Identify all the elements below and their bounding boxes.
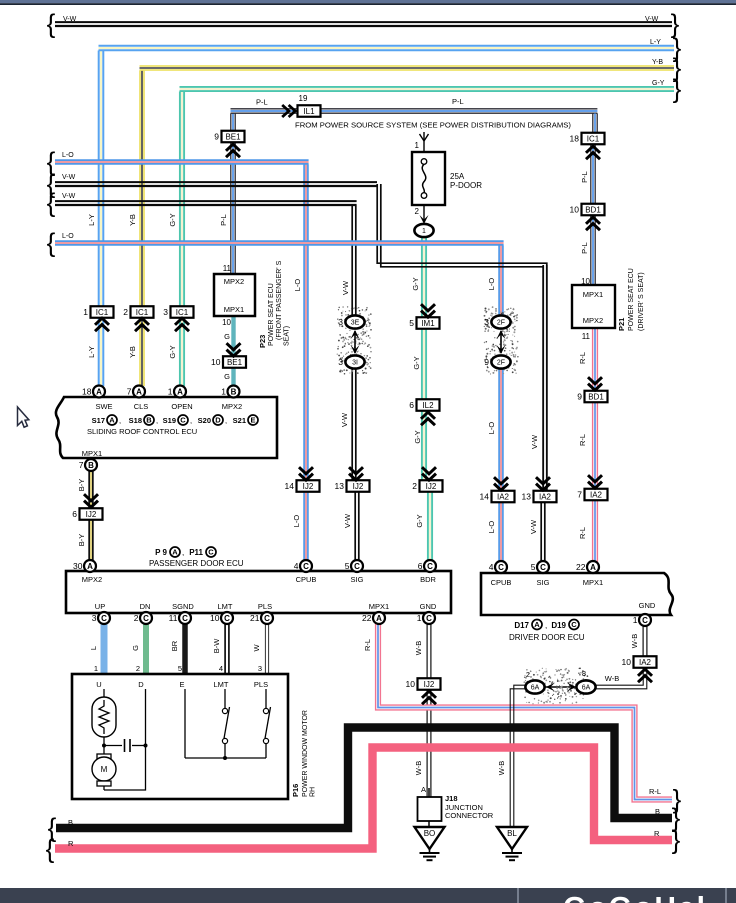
svg-text:W-B: W-B (414, 641, 423, 655)
svg-text:B: B (68, 818, 73, 827)
svg-text:MPX1: MPX1 (82, 449, 102, 458)
svg-text:C: C (303, 562, 309, 571)
svg-text:22: 22 (576, 562, 586, 572)
svg-text:RH: RH (310, 787, 317, 797)
svg-text:2: 2 (415, 207, 420, 216)
svg-text:MPX2: MPX2 (583, 316, 603, 325)
svg-text:U: U (96, 680, 101, 689)
svg-text:P21: P21 (617, 318, 626, 331)
svg-text:C: C (208, 548, 214, 557)
svg-text:5: 5 (178, 664, 182, 673)
svg-text:IA2: IA2 (590, 491, 603, 500)
svg-text:R-L: R-L (578, 527, 587, 539)
svg-text:IJ2: IJ2 (424, 680, 435, 689)
svg-text:B-Y: B-Y (77, 534, 86, 547)
svg-text:IA2: IA2 (497, 493, 510, 502)
svg-text:3: 3 (338, 317, 343, 327)
svg-text:{: { (47, 9, 56, 39)
svg-text:1: 1 (168, 387, 173, 397)
svg-text:G-Y: G-Y (411, 277, 420, 290)
svg-text:DRIVER DOOR ECU: DRIVER DOOR ECU (509, 633, 585, 642)
svg-text:S21: S21 (233, 416, 246, 425)
svg-text:SEAT): SEAT) (284, 326, 291, 346)
svg-text:UP: UP (95, 602, 105, 611)
svg-text:BR: BR (170, 640, 179, 651)
svg-text:3: 3 (338, 357, 343, 367)
svg-text:(FRONT PASSENGER' S: (FRONT PASSENGER' S (276, 260, 283, 340)
svg-text:4: 4 (489, 562, 494, 572)
svg-text:FROM POWER SOURCE SYSTEM (SEE: FROM POWER SOURCE SYSTEM (SEE POWER DIST… (295, 121, 571, 130)
svg-text:9: 9 (484, 357, 489, 367)
svg-text:SIG: SIG (537, 578, 550, 587)
svg-text:10: 10 (406, 679, 416, 689)
svg-text:5: 5 (531, 562, 536, 572)
svg-text:Y-B: Y-B (128, 346, 137, 358)
svg-text:{: { (47, 188, 56, 218)
svg-text:POWER SEAT ECU: POWER SEAT ECU (628, 268, 635, 331)
svg-text:}: } (672, 825, 681, 855)
svg-text:BD1: BD1 (588, 393, 604, 402)
svg-text:C: C (354, 562, 360, 571)
svg-text:IL2: IL2 (422, 401, 434, 410)
svg-text:{: { (46, 834, 55, 864)
svg-text:4: 4 (294, 561, 299, 571)
svg-text:BE1: BE1 (225, 133, 241, 142)
svg-text:6: 6 (72, 509, 77, 519)
svg-text:L-O: L-O (62, 233, 74, 240)
svg-text:M: M (101, 765, 108, 774)
svg-text:MPX2: MPX2 (224, 277, 244, 286)
svg-text:MPX2: MPX2 (222, 402, 242, 411)
svg-text:IM1: IM1 (421, 319, 435, 328)
svg-text:14: 14 (480, 492, 490, 502)
svg-text:A: A (376, 614, 382, 623)
svg-text:L-O: L-O (62, 152, 74, 159)
svg-text:L-O: L-O (293, 279, 302, 292)
svg-text:25A: 25A (450, 172, 465, 181)
svg-text:C: C (143, 614, 149, 623)
svg-text:BD1: BD1 (585, 206, 601, 215)
svg-text:18: 18 (82, 387, 92, 397)
svg-text:MPX1: MPX1 (583, 578, 603, 587)
svg-text:GND: GND (639, 601, 656, 610)
svg-text:B: B (88, 461, 94, 470)
svg-text:9: 9 (577, 392, 582, 402)
svg-text:G: G (224, 332, 230, 341)
svg-text:5: 5 (345, 561, 350, 571)
svg-text:PASSENGER DOOR ECU: PASSENGER DOOR ECU (149, 559, 244, 568)
svg-text:G-Y: G-Y (415, 514, 424, 527)
svg-text:2F: 2F (497, 320, 505, 327)
svg-text:G: G (224, 372, 230, 381)
svg-text:7: 7 (577, 490, 582, 500)
svg-text:V-W: V-W (341, 280, 350, 295)
svg-text:6A: 6A (582, 685, 591, 692)
svg-text:IC1: IC1 (96, 308, 109, 317)
svg-text:W: W (252, 644, 261, 652)
svg-text:10: 10 (570, 205, 580, 215)
svg-text:1: 1 (417, 613, 422, 623)
svg-text:A: A (421, 785, 426, 794)
svg-text:10: 10 (211, 357, 221, 367)
svg-text:A: A (96, 388, 102, 397)
svg-text:G-Y: G-Y (168, 213, 177, 226)
svg-text:BDR: BDR (420, 575, 436, 584)
svg-text:PLS: PLS (254, 680, 268, 689)
svg-text:10: 10 (581, 277, 590, 286)
svg-text:P-DOOR: P-DOOR (450, 181, 482, 190)
svg-text:GND: GND (420, 602, 437, 611)
svg-text:,: , (119, 416, 121, 425)
svg-text:2: 2 (136, 664, 140, 673)
svg-text:P-L: P-L (256, 98, 268, 107)
svg-text:BE1: BE1 (227, 358, 243, 367)
svg-text:V-W: V-W (529, 519, 538, 534)
svg-text:6A: 6A (531, 685, 540, 692)
svg-text:R-L: R-L (649, 787, 661, 796)
svg-text:G-Y: G-Y (168, 345, 177, 358)
svg-text:10: 10 (210, 613, 220, 623)
svg-text:7: 7 (79, 460, 84, 470)
svg-text:R: R (654, 829, 660, 838)
svg-text:A: A (109, 416, 115, 425)
svg-text:14: 14 (285, 481, 295, 491)
svg-text:P11: P11 (189, 548, 203, 557)
svg-text:DN: DN (140, 602, 151, 611)
svg-text:P 9: P 9 (155, 548, 167, 557)
svg-text:G-Y: G-Y (412, 356, 421, 369)
svg-text:B-W: B-W (212, 638, 221, 654)
svg-text:SWE: SWE (95, 402, 112, 411)
svg-text:L-O: L-O (487, 278, 496, 291)
svg-text:W-B: W-B (605, 674, 619, 683)
svg-text:MPX1: MPX1 (224, 305, 244, 314)
svg-text:IL1: IL1 (303, 107, 315, 116)
svg-text:C: C (426, 614, 432, 623)
svg-text:3: 3 (484, 317, 489, 327)
svg-text:A: A (590, 563, 596, 572)
svg-text:A: A (136, 388, 142, 397)
svg-text:7: 7 (127, 387, 132, 397)
svg-text:W-B: W-B (630, 634, 639, 648)
svg-text:G-Y: G-Y (413, 430, 422, 443)
svg-text:Y-B: Y-B (652, 59, 663, 66)
svg-text:S17: S17 (92, 416, 105, 425)
svg-text:6: 6 (418, 561, 423, 571)
svg-text:L-Y: L-Y (87, 214, 96, 226)
svg-text:C: C (182, 614, 188, 623)
svg-text:3: 3 (92, 613, 97, 623)
svg-text:MPX1: MPX1 (369, 602, 389, 611)
svg-text:3I: 3I (352, 360, 358, 367)
svg-text:R: R (68, 839, 74, 848)
svg-text:IJ2: IJ2 (426, 482, 437, 491)
svg-text:3E: 3E (351, 320, 360, 327)
svg-text:IC1: IC1 (136, 308, 149, 317)
svg-text:10: 10 (622, 657, 632, 667)
svg-text:S18: S18 (129, 416, 142, 425)
svg-text:R-L: R-L (363, 639, 372, 651)
svg-text:B: B (146, 416, 152, 425)
svg-text:L-Y: L-Y (650, 39, 661, 46)
svg-text:L: L (89, 646, 98, 650)
svg-text:V-W: V-W (62, 174, 76, 181)
svg-text:2: 2 (526, 670, 530, 679)
svg-text:1: 1 (221, 387, 226, 397)
svg-text:L-O: L-O (487, 521, 496, 534)
svg-text:E: E (179, 680, 184, 689)
svg-text:POWER WINDOW MOTOR: POWER WINDOW MOTOR (302, 710, 309, 797)
svg-text:8: 8 (582, 669, 586, 678)
svg-text:6: 6 (409, 400, 414, 410)
svg-text:1: 1 (633, 615, 638, 625)
svg-text:C: C (101, 614, 107, 623)
svg-text:A: A (172, 548, 178, 557)
svg-text:V-W: V-W (62, 193, 76, 200)
svg-text:,: , (156, 416, 158, 425)
svg-text:18: 18 (570, 134, 580, 144)
svg-text:,: , (545, 621, 547, 630)
svg-text:P23: P23 (258, 335, 267, 348)
svg-text:D: D (138, 680, 144, 689)
svg-text:V-W: V-W (645, 16, 659, 23)
svg-text:C: C (180, 416, 186, 425)
svg-text:Y-B: Y-B (128, 214, 137, 226)
svg-text:10: 10 (222, 318, 231, 327)
svg-text:3: 3 (163, 307, 168, 317)
svg-text:1: 1 (83, 307, 88, 317)
svg-text:C: C (264, 614, 270, 623)
svg-text:PLS: PLS (258, 602, 272, 611)
svg-text:4: 4 (219, 664, 223, 673)
svg-text:CPUB: CPUB (491, 578, 512, 587)
svg-text:B: B (231, 388, 237, 397)
svg-text:D19: D19 (551, 621, 566, 630)
svg-text:2F: 2F (497, 360, 505, 367)
svg-text:W-B: W-B (414, 761, 423, 775)
svg-text:CPUB: CPUB (296, 575, 317, 584)
svg-text:2: 2 (134, 613, 139, 623)
svg-text:5: 5 (409, 318, 414, 328)
svg-text:B-Y: B-Y (77, 479, 86, 492)
svg-text:C: C (540, 563, 546, 572)
svg-text:}: } (673, 74, 682, 104)
svg-text:11: 11 (582, 332, 591, 341)
svg-text:BO: BO (424, 829, 436, 838)
svg-text:BL: BL (507, 829, 517, 838)
svg-text:D17: D17 (514, 621, 529, 630)
svg-text:C: C (498, 563, 504, 572)
svg-text:3: 3 (258, 664, 262, 673)
svg-text:P16: P16 (291, 784, 300, 797)
svg-text:22: 22 (362, 613, 372, 623)
svg-text:2: 2 (412, 481, 417, 491)
svg-text:P-L: P-L (580, 242, 589, 254)
svg-text:GoGoHel: GoGoHel (563, 892, 707, 903)
svg-text:G: G (131, 645, 140, 651)
svg-text:V-W: V-W (343, 513, 352, 528)
svg-text:P-L: P-L (452, 97, 464, 106)
svg-text:C: C (642, 616, 648, 625)
svg-text:,: , (182, 548, 184, 557)
svg-text:S19: S19 (163, 416, 176, 425)
svg-text:13: 13 (522, 492, 532, 502)
svg-text:SIG: SIG (351, 575, 364, 584)
svg-text:IC1: IC1 (587, 135, 600, 144)
svg-text:LMT: LMT (218, 602, 233, 611)
svg-text:CONNECTOR: CONNECTOR (445, 811, 494, 820)
svg-text:S20: S20 (198, 416, 211, 425)
svg-text:L-O: L-O (487, 422, 496, 435)
svg-text:A: A (87, 562, 93, 571)
svg-text:POWER SEAT ECU: POWER SEAT ECU (268, 283, 275, 346)
svg-text:IA2: IA2 (639, 658, 652, 667)
svg-text:SLIDING ROOF CONTROL ECU: SLIDING ROOF CONTROL ECU (87, 427, 197, 436)
svg-text:11: 11 (169, 613, 178, 623)
svg-text:D: D (215, 416, 221, 425)
svg-text:IJ2: IJ2 (303, 482, 314, 491)
svg-text:19: 19 (299, 94, 308, 103)
svg-text:C: C (427, 562, 433, 571)
svg-text:IA2: IA2 (539, 493, 552, 502)
svg-text:30: 30 (73, 561, 83, 571)
svg-text:11: 11 (223, 264, 232, 273)
svg-text:OPEN: OPEN (171, 402, 192, 411)
svg-text:2: 2 (123, 307, 128, 317)
svg-text:A: A (177, 388, 183, 397)
svg-text:J18: J18 (445, 794, 458, 803)
svg-text:W-B: W-B (497, 761, 506, 775)
svg-text:21: 21 (250, 613, 260, 623)
svg-text:P-L: P-L (580, 171, 589, 183)
svg-text:R-L: R-L (578, 352, 587, 364)
svg-text:C: C (571, 620, 577, 629)
svg-text:13: 13 (335, 481, 345, 491)
svg-text:G-Y: G-Y (652, 80, 665, 87)
svg-text:LMT: LMT (214, 680, 229, 689)
svg-text:IJ2: IJ2 (86, 510, 97, 519)
svg-text:MPX1: MPX1 (583, 290, 603, 299)
svg-text:C: C (224, 614, 230, 623)
svg-text:,: , (225, 416, 227, 425)
svg-text:CLS: CLS (134, 402, 149, 411)
svg-text:9: 9 (214, 132, 219, 142)
svg-text:P-L: P-L (219, 214, 228, 226)
svg-text:E: E (250, 416, 255, 425)
svg-text:,: , (190, 416, 192, 425)
svg-text:L-O: L-O (292, 515, 301, 528)
svg-text:1: 1 (415, 141, 420, 150)
svg-text:(DRIVER' S SEAT): (DRIVER' S SEAT) (638, 272, 645, 331)
svg-text:{: { (47, 228, 56, 258)
svg-text:1: 1 (94, 664, 98, 673)
svg-text:MPX2: MPX2 (82, 575, 102, 584)
svg-text:1: 1 (422, 228, 426, 235)
svg-text:R-L: R-L (578, 434, 587, 446)
svg-text:SGND: SGND (172, 602, 194, 611)
svg-text:L-Y: L-Y (87, 346, 96, 358)
svg-text:A: A (534, 620, 540, 629)
svg-text:IC1: IC1 (176, 308, 189, 317)
svg-text:IJ2: IJ2 (353, 482, 364, 491)
svg-text:V-W: V-W (63, 16, 77, 23)
svg-text:B: B (655, 807, 660, 816)
svg-text:V-W: V-W (340, 412, 349, 427)
svg-text:V-W: V-W (530, 434, 539, 449)
